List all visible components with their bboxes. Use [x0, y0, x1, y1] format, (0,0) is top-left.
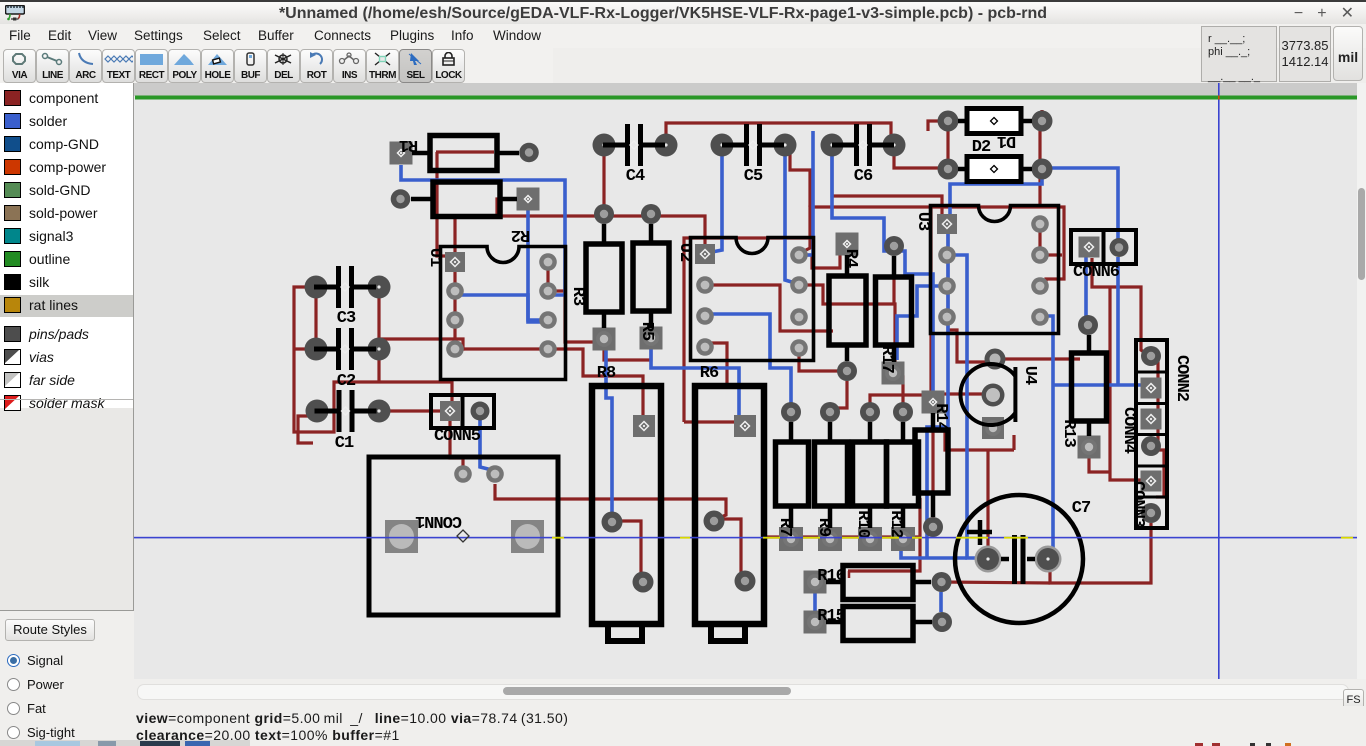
svg-text:R8: R8	[597, 364, 616, 383]
pin U1 left 3	[446, 311, 464, 329]
pin U1 right 1	[539, 253, 557, 271]
svg-text:R7: R7	[775, 518, 794, 537]
svg-text:C1: C1	[335, 434, 354, 453]
R13 body	[1072, 353, 1107, 421]
R16 leads	[826, 580, 931, 585]
pad R14.2	[923, 517, 943, 537]
D1 body	[967, 109, 1021, 134]
wire C4.1 to R3.1	[602, 156, 605, 214]
svg-text:C3: C3	[337, 309, 356, 328]
pin U2 left 3	[696, 307, 714, 325]
menu bar	[0, 24, 1366, 48]
wire D1.2 stub	[1040, 110, 1043, 121]
vertical scrollbar	[1357, 83, 1366, 679]
wire net to U2 pin1	[497, 199, 705, 246]
wire R2.2 to U1 pin6 blue	[528, 210, 542, 320]
pin U2 left 4	[696, 338, 714, 356]
R6 tab	[711, 624, 745, 641]
wire R12.1 to R17.2	[897, 377, 903, 412]
C3 leads	[314, 285, 376, 290]
wire U2 left loop	[684, 238, 810, 422]
pad D2.1	[938, 159, 959, 180]
D1 leads	[958, 119, 1032, 124]
pad D2.2	[1032, 159, 1053, 180]
svg-text:R13: R13	[1059, 419, 1078, 447]
CONN5 outline	[431, 395, 494, 428]
R9 leads	[828, 422, 833, 528]
pad R1.2	[519, 143, 539, 163]
wire C2.1 jog	[294, 347, 316, 350]
wire U3 pin4 to U4.1	[948, 317, 988, 362]
wire C2.2 down	[377, 360, 380, 382]
pin U1 right 4	[539, 340, 557, 358]
pad CONN3.1	[1141, 471, 1162, 492]
wire U2 pin7 to R17	[799, 285, 895, 371]
svg-text:C7: C7	[1072, 499, 1091, 518]
stack outline	[1136, 340, 1167, 528]
crosshair yellow xor dashes	[552, 537, 1353, 539]
pad C6.1	[821, 134, 844, 157]
wire R3 to R5	[604, 348, 651, 360]
C1 center mark	[342, 407, 350, 415]
wire C3.2 to U1 pin4	[379, 298, 463, 349]
wire CONN6 to R13 blue	[1084, 257, 1088, 320]
app icon	[5, 5, 25, 22]
pad R10.2	[858, 527, 882, 551]
wire R10.1 to net395	[870, 395, 930, 412]
wire R8 wiper	[612, 521, 643, 578]
pad CONN6.1	[1079, 237, 1100, 258]
R8 tab	[608, 624, 642, 641]
pad C3.2	[368, 276, 391, 299]
svg-text:CONN6: CONN6	[1073, 263, 1120, 282]
pad R4.1	[836, 233, 859, 256]
pin U1 left 2	[446, 282, 464, 300]
wire C3.1 to C2.1	[314, 298, 317, 338]
pad U4.3	[982, 417, 1004, 439]
wire U2 pin3 to R7 blue	[705, 314, 791, 412]
pad R9.2	[818, 527, 842, 551]
crosshair vertical line	[1218, 83, 1220, 679]
pad U4.1	[985, 349, 1006, 370]
R2 body	[433, 182, 500, 217]
pad R2.1	[391, 189, 411, 209]
r/phi readout	[1201, 26, 1277, 82]
pad R1.1	[390, 142, 413, 165]
pad D1.1	[938, 111, 959, 132]
pin U3 left 1	[937, 214, 957, 234]
pad CONN1.1	[385, 520, 418, 553]
pad U4.2	[982, 384, 1005, 407]
wire R4.2 to R9.1	[830, 381, 847, 414]
R12 leads	[901, 422, 906, 528]
pin U1 right 3	[539, 311, 557, 329]
wire R1.1 to U1 pin7 blue	[401, 165, 565, 295]
pad R8.2	[633, 572, 654, 593]
pad CONN4.2	[1141, 436, 1161, 456]
svg-text:R15: R15	[817, 607, 845, 626]
pad R13.2	[1078, 436, 1101, 459]
pin U3 right 4	[1031, 308, 1049, 326]
svg-text:CONN5: CONN5	[434, 427, 481, 446]
wire R16.1 to R15.1 blue	[813, 592, 817, 612]
pin U3 right 2	[1031, 246, 1049, 264]
C7 leads	[1001, 557, 1035, 562]
wire R2 to U1 pin1	[453, 218, 456, 262]
wire U3 pin8-7	[1040, 224, 1062, 255]
toolbar	[0, 48, 553, 83]
mil button	[1333, 26, 1363, 81]
R9 body	[815, 442, 848, 506]
pad R8.3	[633, 415, 655, 437]
CONN1 outline	[369, 457, 558, 615]
pad C1.1	[306, 400, 329, 423]
FS button	[1343, 689, 1364, 713]
title bar	[0, 0, 1366, 24]
pad CONN1.4	[486, 465, 504, 483]
pad R7.2	[779, 527, 803, 551]
svg-text:R16: R16	[817, 567, 845, 586]
wire U2 pin2 branch	[705, 285, 833, 331]
pad C2.2	[368, 338, 391, 361]
svg-text:R2: R2	[511, 225, 530, 244]
pad CONN5.2	[471, 402, 490, 421]
wire C5.2 blue	[785, 156, 795, 283]
svg-text:U3: U3	[913, 212, 932, 231]
board outline top edge	[135, 96, 1357, 100]
wire U1 right pins	[546, 262, 549, 291]
wire CONN4 pin2	[1151, 450, 1164, 497]
pad R12.2	[891, 527, 915, 551]
wire R3.2 to R8.1 blue	[606, 348, 612, 520]
wire D1.1 stub	[928, 121, 948, 131]
C6 leads	[832, 143, 894, 148]
C2 center mark	[341, 345, 349, 353]
wire CONN1 to R6.1	[495, 484, 726, 519]
C5 leads	[722, 143, 784, 148]
wire U3 left pins chain	[946, 233, 949, 317]
route styles	[0, 611, 134, 746]
svg-text:R10: R10	[853, 510, 872, 538]
wire C6.1 to U3 pin1	[832, 156, 942, 218]
pad R10.1	[860, 402, 880, 422]
wire U3 pin1 to R14.2 blue	[927, 232, 948, 558]
svg-text:C6: C6	[854, 167, 873, 186]
pad R9.1	[820, 402, 840, 422]
pin U3 left 2	[938, 246, 956, 264]
wire net to U3 pin6	[810, 207, 1064, 286]
svg-text:R6: R6	[700, 364, 719, 383]
wire to R6.3	[684, 420, 736, 423]
wire C1.2 to CONN5	[390, 409, 444, 412]
pin U3 left 3	[938, 277, 956, 295]
wire U2 pin5 to R4.2	[799, 348, 840, 371]
pad CONN5.1	[440, 401, 460, 421]
wire R13 to CONN3	[1089, 456, 1110, 472]
svg-text:C4: C4	[626, 167, 645, 186]
R14 leads	[931, 413, 936, 517]
pad CONN1.3	[454, 465, 472, 483]
pad R8.1	[602, 512, 623, 533]
R1 leads	[412, 151, 519, 156]
wire to CONN2 pin1 blue	[1053, 383, 1148, 387]
pad R16.2	[932, 572, 952, 592]
R10 body	[853, 442, 887, 506]
pad R17.1	[884, 236, 904, 256]
wire net450	[930, 431, 1014, 450]
wire U1 pin4 to R8	[455, 349, 643, 418]
pad C6.2	[883, 134, 906, 157]
wire R16.2 to C7.2	[941, 582, 1050, 583]
pad R6.3	[734, 415, 756, 437]
R14 body	[915, 430, 948, 493]
wire R6 wiper	[713, 519, 744, 578]
wire R7-R12 bus	[763, 535, 906, 538]
R15 body	[843, 607, 913, 641]
pin U2 left 1	[695, 244, 715, 264]
svg-text:D2: D2	[972, 138, 991, 157]
wire C4.2 to C6.2	[666, 123, 891, 140]
R16 body	[843, 566, 913, 600]
wire R1 interior	[436, 150, 494, 153]
pin U2 right 4	[790, 339, 808, 357]
svg-text:R17: R17	[877, 345, 896, 373]
pad R17.2	[882, 362, 905, 385]
R1 body	[430, 136, 497, 171]
wire C5.2 branch	[790, 153, 810, 207]
pad R6.1	[704, 511, 725, 532]
wire U3 pin5 to C7.2 blue	[1040, 316, 1053, 561]
wire CONN5 to CONN1	[450, 421, 463, 470]
svg-text:CONN1: CONN1	[415, 511, 462, 530]
U1 outline	[441, 247, 566, 380]
C3 plates	[339, 266, 352, 308]
wire R16.2 to R15.2 blue	[939, 592, 943, 612]
svg-text:CONN2: CONN2	[1172, 355, 1191, 402]
R4 leads	[845, 255, 850, 361]
C5 center mark	[749, 141, 757, 149]
C2 plates	[339, 328, 352, 370]
wire CONN6.2 down blue	[1116, 257, 1120, 385]
C4 leads	[603, 143, 665, 148]
R8 outline	[592, 386, 661, 624]
pad C4.1	[593, 134, 616, 157]
wire C6.1 to R14 blue	[832, 156, 933, 395]
R12 body	[887, 442, 919, 506]
pad R5.1	[641, 204, 661, 224]
C2 leads	[314, 347, 376, 352]
wire U1 left pins	[453, 262, 456, 349]
pad R16.1	[804, 571, 827, 594]
wire U3 pin2 to C7.1 blue	[948, 255, 977, 558]
C4 plates	[628, 124, 641, 166]
wire U2 pin8 to R4	[799, 247, 840, 268]
R13 leads	[1087, 335, 1092, 436]
wire C6.2 to D2.1	[894, 156, 940, 168]
pin U2 right 3	[790, 308, 808, 326]
horizontal scrollbar	[134, 679, 1366, 706]
R17 body	[876, 277, 912, 345]
pad CONN6.2	[1110, 238, 1129, 257]
pad R5.2	[640, 327, 663, 350]
pin U2 left 2	[696, 276, 714, 294]
CONN6 outline	[1071, 230, 1136, 264]
R3 body	[586, 244, 622, 312]
wire to CONN3 pin1	[1110, 287, 1143, 480]
pin U2 right 2	[790, 276, 808, 294]
R10 leads	[868, 422, 873, 528]
svg-text:R4: R4	[841, 249, 860, 268]
R15 leads	[826, 620, 932, 625]
U2 outline	[691, 238, 814, 361]
C4 center mark	[630, 141, 638, 149]
pin U3 right 1	[1031, 215, 1049, 233]
wire C3.1 tree to CONN5	[294, 287, 452, 432]
wire U1 pin2 blue	[455, 295, 548, 322]
wire CONN5.2 to CONN1 blue	[480, 420, 492, 470]
pad CONN4.1	[1141, 409, 1162, 430]
wire bus up	[906, 498, 920, 537]
svg-text:R3: R3	[568, 287, 587, 306]
svg-text:C2: C2	[337, 372, 356, 391]
wire R5.2 to R6 blue	[651, 348, 739, 418]
wire D2.2 to U3 pin1 blue	[950, 169, 1042, 218]
svg-text:D1: D1	[997, 131, 1016, 150]
wire D1.2 down	[1038, 131, 1041, 207]
wire bus to R16	[848, 537, 920, 571]
svg-text:R9: R9	[814, 518, 833, 537]
pad C5.1	[711, 134, 734, 157]
pin U1 left 1	[445, 252, 465, 272]
C6 center mark	[859, 141, 867, 149]
R7 body	[776, 442, 809, 506]
svg-text:U2: U2	[675, 243, 694, 262]
wire R1 to U1	[437, 152, 452, 256]
wire net450 stub	[1012, 435, 1015, 450]
status bar	[134, 706, 1366, 746]
D2 body	[967, 157, 1021, 182]
pin U3 left 4	[938, 308, 956, 326]
wire U1 pin7 to R3	[548, 291, 596, 342]
R5 leads	[649, 224, 654, 328]
svg-text:R12: R12	[886, 510, 905, 538]
wire CONN2 right side	[1156, 357, 1159, 446]
pad D1.2	[1032, 111, 1053, 132]
left sidebar layers	[0, 83, 134, 611]
wire R12.2 to net blue	[901, 546, 967, 558]
crosshair xor mark on outline	[1218, 96, 1220, 100]
pad R4.2	[837, 361, 857, 381]
R5 body	[633, 243, 669, 311]
pad C7.2	[1035, 546, 1062, 573]
pin U2 right 1	[790, 246, 808, 264]
pin U1 right 2	[539, 282, 557, 300]
pad C2.1	[305, 338, 328, 361]
pad R2.2	[517, 188, 540, 211]
pad CONN2.1	[1141, 378, 1162, 399]
wire to C7.1	[986, 450, 989, 548]
C6 plates	[857, 124, 870, 166]
pad R15.2	[932, 612, 952, 632]
pad R13.1	[1078, 315, 1098, 335]
pad R6.2	[735, 571, 756, 592]
wire to U2 pin8	[802, 237, 810, 252]
C7 plates	[1015, 535, 1024, 584]
pad C5.2	[774, 134, 797, 157]
pin U1 left 4	[446, 340, 464, 358]
wire U4 to R13	[995, 357, 1080, 360]
wire net206 to R14.1	[929, 207, 932, 399]
svg-text:R5: R5	[637, 322, 656, 341]
svg-text:R1: R1	[399, 135, 418, 154]
C5 plates	[747, 124, 760, 166]
C1 leads	[315, 409, 377, 414]
pad R3.2	[593, 328, 616, 351]
R2 leads	[411, 197, 517, 202]
svg-text:CONN3: CONN3	[1128, 481, 1147, 528]
wire D2.2 to CONN6 blue	[1042, 168, 1118, 240]
pad R15.1	[804, 611, 827, 634]
R3 leads	[602, 224, 607, 328]
pad R12.1	[893, 402, 913, 422]
transistor U4	[960, 364, 1015, 425]
crosshair horizontal line	[134, 537, 1357, 539]
svg-text:U4: U4	[1020, 366, 1039, 385]
pad R14.1	[922, 391, 945, 414]
coordinates	[1279, 26, 1331, 82]
pad CONN2.2	[1141, 346, 1161, 366]
wire R14 through	[931, 402, 934, 527]
wire D1.1 to D2.1	[946, 121, 949, 169]
U3 outline	[931, 206, 1059, 334]
R6 outline	[695, 386, 764, 624]
pad CONN3.2	[1141, 503, 1161, 523]
wire CONN3 pin2 to C7.2	[1050, 523, 1151, 583]
C1 plates	[339, 390, 352, 432]
wire branch to U4.2	[931, 392, 984, 395]
D2 leads	[958, 167, 1032, 172]
wire C1.1 hook	[298, 416, 317, 443]
wire C5.1 to U2 pin1 blue	[712, 156, 722, 252]
wire R17.1 internal	[892, 256, 895, 304]
pad R7.1	[781, 402, 801, 422]
canvas	[134, 83, 1357, 679]
pad C1.2	[368, 400, 391, 423]
pin U3 right 3	[1031, 277, 1049, 295]
C3 center mark	[341, 283, 349, 291]
svg-text:CONN4: CONN4	[1119, 407, 1138, 454]
wire U2 pin8 blue up	[799, 131, 813, 255]
C7 plus	[967, 520, 992, 545]
pad CONN1.2	[511, 520, 544, 553]
cursor crosshair diamond	[457, 530, 469, 542]
pad C7.1 positive	[975, 546, 1002, 573]
svg-text:C5: C5	[744, 167, 763, 186]
R7 leads	[789, 422, 794, 528]
stack dividers	[1136, 372, 1167, 497]
pad C4.2	[655, 134, 678, 157]
svg-text:U1: U1	[425, 248, 444, 267]
R17 leads	[892, 256, 897, 362]
capacitor C7	[955, 495, 1083, 623]
wire U3 pin3 blue	[897, 286, 948, 360]
R4 body	[829, 276, 866, 345]
wire R16 stub	[848, 571, 851, 578]
pad R3.1	[594, 204, 614, 224]
wire CONN6 to CONN2	[1092, 258, 1148, 355]
wire U2 pin4 down	[705, 343, 727, 386]
svg-text:R14: R14	[931, 403, 950, 431]
